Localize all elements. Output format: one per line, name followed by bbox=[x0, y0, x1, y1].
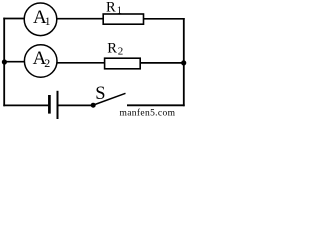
svg-text:1: 1 bbox=[45, 16, 51, 28]
node: junction dot left rail / A2 branch bbox=[2, 59, 7, 64]
wire: A1 to R1 bbox=[57, 18, 104, 20]
wire: left rail to ammeter A2 bbox=[3, 61, 24, 63]
wire: A2 to R2 bbox=[57, 62, 105, 64]
svg-text:manfen5.com: manfen5.com bbox=[120, 108, 176, 119]
ammeter A2 bbox=[24, 45, 57, 78]
battery cell: long thin plate (positive) bbox=[57, 91, 59, 119]
wire: right rail vertical bbox=[183, 18, 185, 106]
wire: battery to switch pivot bbox=[59, 104, 94, 106]
wire: left rail vertical bbox=[3, 18, 5, 107]
resistor R1 bbox=[103, 14, 143, 24]
svg-text:R: R bbox=[107, 41, 117, 57]
wire: R2 to right rail bbox=[140, 62, 185, 64]
ammeter A1 bbox=[24, 3, 57, 36]
svg-text:S: S bbox=[95, 84, 105, 104]
wire: top-left segment to ammeter A1 bbox=[3, 18, 24, 20]
switch S pivot node bbox=[91, 103, 96, 108]
svg-text:2: 2 bbox=[118, 46, 124, 58]
switch S blade (open) bbox=[94, 93, 126, 105]
battery cell: short thick plate (negative) bbox=[48, 95, 51, 114]
wire: bottom-left segment to battery bbox=[3, 104, 48, 106]
wire: R1 to right rail bbox=[144, 18, 185, 20]
svg-text:R: R bbox=[106, 0, 116, 16]
wire: switch to right rail bbox=[127, 104, 185, 106]
node: junction dot right rail / R2 branch bbox=[181, 60, 186, 65]
resistor R2 bbox=[105, 58, 141, 69]
svg-text:2: 2 bbox=[44, 56, 50, 70]
svg-text:1: 1 bbox=[117, 6, 122, 17]
